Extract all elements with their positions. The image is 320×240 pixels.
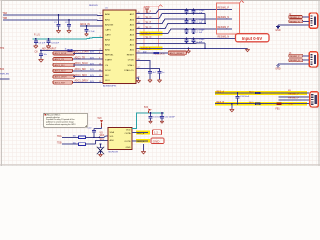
svg-text:29: 29: [138, 51, 140, 53]
svg-text:RESIM1_P: RESIM1_P: [218, 8, 230, 10]
ground AGND: [136, 80, 140, 83]
wire GND to J3: [278, 63, 309, 65]
svg-text:Input 0-5V: Input 0-5V: [242, 36, 262, 41]
yellow bus RES_A: [215, 91, 307, 95]
svg-text:ADC1_DRDY: ADC1_DRDY: [55, 76, 68, 79]
svg-text:RES_A: RES_A: [217, 90, 225, 93]
wire AGND pin: [136, 78, 139, 79]
svg-text:RES_B: RES_B: [217, 102, 225, 104]
svg-text:AIN2GN: AIN2GN: [105, 23, 114, 26]
capacitor C10: [93, 128, 95, 130]
svg-text:ADC1_RST: ADC1_RST: [55, 81, 66, 84]
svg-text:44: 44: [138, 27, 140, 29]
wire U2 VDD (teal): [132, 113, 164, 129]
wire TDA with resistor R1: [62, 136, 79, 138]
svg-text:oscillation without requiring: oscillation without requiring the GPIO: [46, 123, 76, 126]
svg-text:C12 100nF: C12 100nF: [165, 116, 176, 118]
svg-text:RESIM2_N: RESIM2_N: [218, 37, 230, 39]
power port 5V0 box: [153, 130, 162, 135]
yellow highlight OUTA: [136, 131, 150, 135]
highlight region box right of U1: [144, 7, 159, 50]
wire GND to J2: [278, 24, 309, 26]
filter capacitor: [193, 19, 195, 20]
op-amp U2 body: [108, 128, 132, 150]
wire ADC1_SDI: [73, 70, 103, 72]
power port GND box: [151, 138, 164, 144]
svg-text:OUTB: OUTB: [124, 141, 131, 143]
wire TDA_P: [3, 14, 96, 16]
U1 left pin numbers: [100, 13, 101, 51]
svg-text:ADC1_SDI: ADC1_SDI: [75, 68, 87, 71]
wire RESIM1_N: [303, 20, 310, 22]
capacitor C4 on input: [48, 39, 50, 41]
wire RESIM2_P: [303, 55, 310, 57]
svg-text:9: 9: [99, 58, 100, 60]
svg-text:CAP1: CAP1: [105, 28, 111, 31]
svg-text:ADC1_RESET: ADC1_RESET: [170, 52, 185, 55]
filter capacitor: [193, 29, 195, 30]
svg-text:2: 2: [100, 18, 101, 20]
global label ADC1_SCLK: [53, 52, 75, 56]
svg-text:CS: CS: [105, 65, 109, 67]
global label ADC1_DRDY: [53, 75, 75, 79]
connector J2: [310, 14, 318, 29]
capacitor C13 between buses: [237, 93, 239, 96]
yellow bus RES_B: [215, 102, 307, 106]
svg-text:13: 13: [99, 81, 101, 83]
svg-text:FB1: FB1: [276, 109, 281, 111]
filter capacitor: [186, 19, 188, 20]
wire ADC1_DRDY: [73, 81, 103, 83]
svg-text:SDA: SDA: [100, 134, 105, 137]
wire ADC1_START: [73, 52, 103, 54]
yellow highlight net AGND_B: [140, 46, 163, 50]
svg-text:RESIM1_P: RESIM1_P: [288, 94, 299, 96]
svg-text:ADS8681IPW: ADS8681IPW: [103, 84, 116, 87]
wire analog input (teal): [33, 38, 104, 39]
global label ADC1_CS: [53, 57, 73, 61]
svg-text:C4 10nF: C4 10nF: [51, 42, 60, 44]
svg-text:PWR_EN: PWR_EN: [0, 74, 9, 76]
svg-text:SDA: SDA: [110, 131, 115, 134]
svg-text:C3 1nF: C3 1nF: [38, 42, 46, 44]
ground at J2: [276, 25, 280, 28]
svg-text:27: 27: [138, 67, 140, 69]
svg-text:P_U1: P_U1: [34, 34, 40, 36]
ground symbol upper: [39, 58, 44, 62]
wire RESIM2_N: [303, 59, 310, 61]
wire SL_N pair1 bottom: [136, 14, 205, 19]
capacitor C12: [161, 113, 163, 117]
wire ADC1_TR: [73, 58, 103, 60]
svg-text:RESET: RESET: [127, 55, 135, 57]
svg-text:GND: GND: [288, 104, 293, 106]
ground below D1: [99, 154, 103, 157]
svg-text:SCL: SCL: [100, 139, 105, 141]
svg-text:GND: GND: [126, 147, 131, 149]
svg-text:STALL: STALL: [127, 64, 134, 67]
svg-text:41: 41: [138, 12, 140, 14]
wire ADC1_SCLK: [73, 64, 103, 66]
wire SL_P pair1 top: [136, 9, 232, 13]
svg-text:C 1nF: C 1nF: [197, 22, 203, 24]
svg-text:SL_N: SL_N: [146, 17, 152, 19]
svg-text:C 1nF: C 1nF: [197, 32, 203, 34]
svg-text:CAP2: CAP2: [105, 33, 111, 36]
wire AVDD decoupling: [136, 61, 150, 72]
wire ADC1_RESET row: [136, 52, 168, 54]
wire gnd rail yellow row: [136, 47, 248, 49]
svg-text:AIN0: AIN0: [105, 13, 111, 16]
wire RES_A: [215, 92, 309, 94]
wire to J1 mid2: [279, 99, 310, 101]
diode D1 (DNP): [100, 144, 102, 147]
svg-text:1: 1: [100, 13, 101, 15]
ground DVDD: [157, 79, 161, 82]
svg-text:DVDD: DVDD: [128, 60, 135, 62]
global label ADC1_SDI: [53, 63, 75, 67]
ground below callout: [245, 48, 249, 51]
svg-text:C 1nF: C 1nF: [197, 42, 203, 44]
filter capacitor: [193, 39, 195, 40]
svg-text:GND: GND: [275, 69, 280, 71]
svg-text:RESIM1_P: RESIM1_P: [290, 17, 301, 19]
capacitor C1: [58, 15, 60, 25]
wire TDB with resistor R2: [62, 143, 79, 145]
svg-text:1.2: 1.2: [154, 131, 158, 135]
callout Input 0-5V: [236, 34, 270, 42]
connector J1: [311, 93, 319, 108]
svg-text:5V0: 5V0: [0, 69, 5, 71]
svg-text:43: 43: [138, 22, 140, 24]
capacitor AVDD: [148, 72, 152, 74]
U2 pin names: [110, 130, 132, 149]
ground for C4: [46, 45, 50, 48]
svg-text:42: 42: [138, 17, 140, 19]
svg-text:28: 28: [138, 59, 140, 61]
note box: [44, 113, 88, 127]
svg-text:AIN4: AIN4: [105, 44, 111, 47]
svg-text:ADC1_SDO: ADC1_SDO: [55, 70, 66, 73]
svg-text:RESIM2_P: RESIM2_P: [218, 27, 230, 29]
svg-text:4: 4: [100, 49, 101, 51]
capacitor C2: [68, 20, 70, 25]
svg-text:AIN5: AIN5: [105, 49, 111, 52]
capacitor C3 on input: [35, 39, 37, 41]
wire ADC2_IN: [80, 25, 103, 27]
svg-text:SL_P: SL_P: [146, 22, 152, 24]
ground for C2: [67, 30, 71, 33]
svg-text:GND: GND: [275, 30, 280, 32]
svg-text:ADC1_START: ADC1_START: [75, 51, 90, 54]
U1 pin name texts: [105, 13, 135, 82]
ground for C1: [56, 30, 60, 33]
svg-text:OUTA: OUTA: [125, 132, 131, 135]
svg-text:AIN3: AIN3: [105, 39, 111, 42]
ground mid filter: [188, 48, 190, 50]
svg-text:VDD: VDD: [126, 130, 131, 132]
power flag above U2: [100, 120, 104, 127]
ground AVDD: [148, 79, 152, 82]
svg-text:11: 11: [99, 69, 101, 71]
filter capacitor: [186, 39, 188, 40]
svg-text:AIN1: AIN1: [105, 18, 111, 21]
svg-text:RESIM2_P: RESIM2_P: [290, 56, 301, 58]
svg-text:8: 8: [99, 52, 100, 54]
yellow highlight net AGND_A: [140, 32, 163, 36]
svg-text:START: START: [105, 59, 113, 62]
svg-text:AGND_B: AGND_B: [141, 48, 151, 51]
filter capacitor: [193, 9, 195, 10]
op-amp U1 (ADC) body: [103, 10, 136, 84]
svg-text:3: 3: [100, 36, 101, 38]
svg-text:ADC1_SCLK: ADC1_SCLK: [75, 62, 89, 65]
global label RESIM2_N: [289, 59, 303, 62]
svg-text:MCP4728: MCP4728: [109, 152, 119, 154]
svg-text:C 1nF: C 1nF: [197, 12, 203, 14]
wire pair4 bottom: [136, 42, 205, 45]
wire to J1 mid: [279, 96, 310, 98]
power flag on teal: [149, 109, 152, 114]
svg-text:RESIM2_N: RESIM2_N: [290, 60, 301, 62]
highlight region box RESIM: [216, 3, 239, 34]
svg-text:ADC1_DRDY: ADC1_DRDY: [75, 80, 89, 83]
svg-text:TP4: TP4: [0, 48, 5, 50]
svg-text:TDA: TDA: [57, 135, 62, 138]
wire TDA_N: [3, 19, 96, 21]
global label RESIM1_N: [289, 20, 303, 23]
global label RESIM1_P: [289, 16, 303, 19]
filter capacitor: [186, 29, 188, 30]
wire RESIM1_P: [303, 16, 310, 18]
ground for C3: [34, 45, 38, 48]
svg-text:ADC1_TR: ADC1_TR: [75, 56, 86, 59]
svg-text:STALL/CL: STALL/CL: [124, 69, 135, 72]
wire ADC1_INPUT: [41, 49, 103, 51]
svg-text:SL_P: SL_P: [146, 12, 152, 14]
wire SL_P pair2 top: [136, 19, 232, 24]
svg-text:ADC1_SCLK: ADC1_SCLK: [55, 52, 67, 55]
ground for C5: [85, 33, 89, 36]
capacitor C5: [86, 26, 88, 30]
ground below bus RES_B: [231, 104, 233, 109]
svg-text:12: 12: [99, 75, 101, 77]
svg-text:RESIM1_N: RESIM1_N: [290, 21, 301, 23]
wire DVDD decoupling: [136, 69, 160, 72]
wire pair3 bottom yellow row: [136, 32, 163, 34]
global label RESIM2_P: [289, 54, 303, 57]
global label ADC1_RST: [53, 81, 73, 85]
svg-text:REFSEL: REFSEL: [105, 55, 114, 57]
wire SL_N pair2 bottom: [136, 23, 205, 28]
wire RES_B: [215, 103, 309, 105]
capacitor C8 on ADC1_INPUT: [40, 50, 42, 54]
wire tie to gnd rail: [204, 14, 206, 24]
svg-text:SL_N: SL_N: [146, 37, 152, 39]
svg-text:5V0: 5V0: [144, 107, 149, 109]
connector J3: [310, 53, 318, 68]
svg-text:ADC1_SDI: ADC1_SDI: [55, 64, 65, 67]
wire ADC1_SDO: [73, 76, 103, 78]
yellow highlight OUTB: [136, 139, 150, 143]
capacitor DVDD: [158, 72, 162, 74]
svg-text:SL_N: SL_N: [146, 27, 152, 29]
svg-text:C13 10nF: C13 10nF: [240, 96, 250, 98]
svg-text:SCLK: SCLK: [105, 70, 111, 72]
svg-text:RES_A: RES_A: [137, 132, 145, 135]
svg-text:SDI: SDI: [105, 75, 109, 77]
svg-text:AGND_A: AGND_A: [141, 33, 151, 36]
svg-text:ADC1_CS: ADC1_CS: [55, 58, 65, 61]
svg-text:RES_B: RES_B: [137, 141, 145, 143]
svg-text:RESIM1_N: RESIM1_N: [218, 17, 230, 19]
capacitor C11: [150, 113, 152, 117]
svg-text:26: 26: [138, 77, 140, 79]
ground below U2 area: [143, 144, 145, 151]
svg-text:R11: R11: [288, 90, 291, 92]
wire pair3 top: [136, 29, 232, 34]
wire pair4 top: [136, 38, 236, 40]
svg-text:ADC1_SDO: ADC1_SDO: [75, 74, 88, 77]
ground at J3: [276, 64, 280, 67]
filter capacitor: [186, 9, 188, 10]
svg-text:REF5025: REF5025: [89, 5, 99, 7]
svg-text:TDB: TDB: [57, 143, 62, 145]
global label ADC1_SDO: [53, 69, 73, 73]
ferrite bead on RES_B: [276, 102, 281, 105]
svg-text:SDO: SDO: [105, 80, 110, 82]
svg-text:C 1nF: C 1nF: [89, 31, 95, 33]
svg-text:5V0: 5V0: [98, 118, 103, 120]
svg-text:GND: GND: [153, 139, 161, 143]
svg-text:10: 10: [99, 63, 101, 65]
